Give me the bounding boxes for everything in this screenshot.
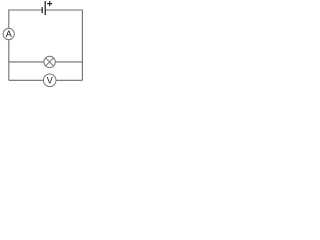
wire right rail <box>81 10 83 81</box>
battery B1 positive plate (long) <box>44 1 46 15</box>
wire top-right: battery positive lead <box>46 9 83 11</box>
svg-text:V: V <box>47 75 53 85</box>
svg-text:A: A <box>6 29 12 39</box>
voltmeter U2 body <box>43 74 56 87</box>
battery B1 negative plate (short) <box>41 7 43 13</box>
wire lamp branch <box>9 61 83 63</box>
lamp L1 body <box>44 56 55 67</box>
wire voltmeter branch <box>9 79 83 81</box>
lamp L1 cross <box>46 58 54 66</box>
wire left rail <box>8 10 10 81</box>
ammeter U1 body <box>3 28 14 39</box>
wire top-left: battery negative lead <box>9 9 42 11</box>
battery polarity label + <box>47 1 52 6</box>
